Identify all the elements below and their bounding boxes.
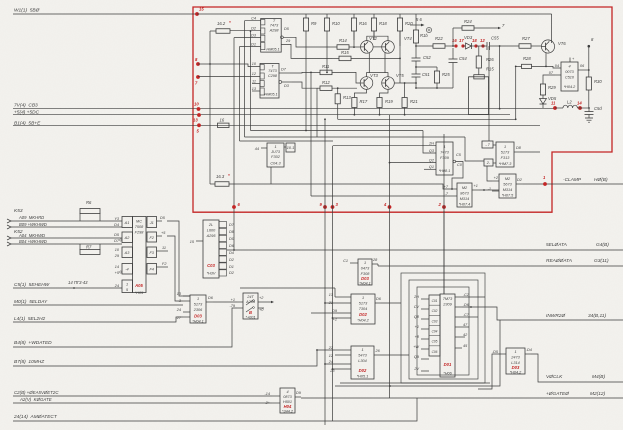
bus mid 1 bbox=[251, 130, 424, 132]
resistor 16.3 bbox=[210, 183, 215, 185]
L314 out bbox=[525, 353, 531, 355]
resistor R18 bbox=[373, 14, 375, 18]
F313 out bbox=[514, 151, 520, 153]
resistor R30 bbox=[586, 77, 591, 90]
node 13 bbox=[197, 113, 201, 117]
U0073 out D6 bbox=[578, 69, 589, 71]
A298 pin C bbox=[234, 37, 261, 39]
collector bracket upper bbox=[367, 36, 388, 40]
power symbol bbox=[426, 27, 431, 32]
IC A295 bbox=[203, 220, 219, 278]
capacitor C52 bbox=[415, 43, 417, 58]
C298 pin 11 bbox=[252, 83, 260, 85]
IC L314 bbox=[506, 348, 525, 374]
F298 out +5 bbox=[157, 235, 163, 237]
wire READDATA bbox=[378, 265, 623, 267]
resistor 16.2 bbox=[210, 30, 216, 32]
A295 right pins bbox=[219, 222, 227, 228]
wire SELDATA bbox=[227, 249, 623, 251]
wire 5B0 input bbox=[13, 13, 197, 15]
resistor R29 bbox=[540, 84, 545, 95]
F309 out bbox=[453, 160, 456, 163]
resistor R1b bbox=[415, 14, 417, 30]
resistor R19 bbox=[377, 98, 382, 108]
pin circles bbox=[120, 239, 122, 241]
wire +DEASVDETZC bbox=[13, 395, 272, 397]
node 2 bbox=[442, 205, 446, 209]
node 7 bbox=[196, 75, 200, 79]
top supply bus bbox=[197, 13, 552, 15]
F298 right box F4 bbox=[147, 264, 157, 275]
input arrow bbox=[7, 219, 11, 223]
bus mid 3 bbox=[240, 140, 334, 142]
capacitor C55 bbox=[486, 42, 488, 50]
VT6 emitter bbox=[545, 52, 547, 66]
resistor R21 bbox=[404, 83, 406, 98]
vertical R28 feed bbox=[515, 66, 517, 119]
wire +DGATED bbox=[301, 397, 623, 399]
node 4 bbox=[388, 205, 392, 209]
node 14 bbox=[578, 106, 582, 110]
riser x390 bbox=[389, 115, 391, 386]
IC A299 bbox=[243, 293, 258, 319]
resistor R13 bbox=[337, 88, 339, 94]
resistor R27 bbox=[519, 44, 531, 49]
2306 out bbox=[206, 301, 213, 303]
F298 out F2 bbox=[157, 266, 169, 268]
wire K53a bbox=[11, 220, 122, 222]
transistor VT5 bbox=[382, 77, 395, 90]
A298 pin D1 bbox=[240, 46, 261, 48]
resistor 16 bbox=[218, 123, 230, 127]
U0073 pin D7 bbox=[555, 74, 561, 76]
wire KDGATE bbox=[13, 402, 272, 404]
node 6 bbox=[232, 205, 236, 209]
F313 input box b bbox=[484, 159, 493, 166]
ground bbox=[585, 117, 593, 119]
wire K52a bbox=[11, 237, 122, 239]
A299 switch marks bbox=[246, 301, 253, 306]
F298 left pin box A2 bbox=[122, 232, 133, 243]
wire CB3 bbox=[13, 108, 555, 110]
wire SELDA2 bbox=[13, 317, 183, 322]
resistor R10 bbox=[326, 14, 328, 18]
wire R23 branch bbox=[416, 66, 437, 68]
F302 pin bbox=[261, 147, 267, 149]
node 10 bbox=[197, 107, 201, 111]
routing loop inner bbox=[417, 287, 469, 375]
wire SENSE bbox=[13, 287, 122, 289]
wire to C55 bbox=[476, 45, 487, 47]
collector bracket lower bbox=[367, 73, 389, 77]
F298 left pin box A4 bbox=[122, 264, 133, 275]
red highlight box outline bbox=[193, 7, 612, 212]
A295 pin 15 bbox=[196, 240, 203, 242]
IC H501 bbox=[280, 388, 295, 413]
A299 pins bbox=[237, 301, 243, 303]
wire INWRZD bbox=[462, 307, 623, 320]
riser x332 bbox=[332, 146, 334, 421]
2309 right stubs bbox=[455, 296, 462, 298]
cascode wire left bbox=[368, 53, 370, 73]
wire join bbox=[416, 87, 453, 89]
vertical feed b bbox=[310, 72, 312, 196]
F298 left pin box A3 bbox=[122, 247, 133, 258]
VT5 base wire bbox=[394, 82, 416, 84]
A299 out bbox=[258, 301, 264, 303]
wire 16.3 out bbox=[229, 184, 450, 189]
R20 lead bbox=[399, 31, 401, 58]
M314a out bbox=[516, 183, 523, 185]
C298 pin 12 bbox=[198, 76, 260, 78]
node 9 bbox=[323, 205, 327, 209]
R16 lead bbox=[353, 31, 355, 47]
2306 pins bbox=[183, 295, 190, 297]
IC L304 bbox=[351, 346, 374, 379]
wire SELDAY bbox=[13, 304, 183, 306]
input arrow bbox=[7, 236, 11, 240]
H501 pins bbox=[272, 395, 280, 397]
node 15 bbox=[195, 12, 199, 16]
IC M314b bbox=[457, 183, 472, 207]
terminal 8 bbox=[588, 45, 591, 48]
7304 out bbox=[375, 302, 381, 304]
F302 out box bbox=[286, 143, 295, 152]
IC 2309 body bbox=[440, 294, 455, 377]
F313 input box a bbox=[482, 141, 493, 148]
F298 out D5 bbox=[157, 220, 163, 222]
resistor R9 bbox=[305, 14, 307, 18]
F298 right box F2 bbox=[147, 232, 157, 242]
resistor R23 bbox=[436, 67, 438, 71]
resistor R16 bbox=[353, 14, 355, 18]
shield box bbox=[469, 77, 489, 115]
C298 pin 13 bbox=[252, 90, 260, 92]
IC 2306 bbox=[190, 295, 206, 323]
wire 16.2-16.3 riser bbox=[209, 31, 211, 184]
input arrow bbox=[7, 242, 11, 246]
resistor R17 bbox=[352, 98, 357, 108]
7304 pins lower bbox=[311, 312, 351, 314]
IC F298 body bbox=[133, 217, 147, 293]
emitter VT3 to R17 bbox=[354, 89, 366, 97]
IC 2309 pin column bbox=[429, 295, 440, 356]
node 8 bbox=[196, 62, 200, 66]
wire 2309 top feed bbox=[443, 211, 445, 294]
A298 pin C4 bbox=[245, 20, 261, 22]
IC U0073 bbox=[569, 58, 571, 63]
resistor R7 bbox=[79, 244, 81, 250]
resistor R11 bbox=[311, 71, 320, 73]
IC 7304 bbox=[351, 294, 375, 324]
IC F309 bbox=[436, 142, 453, 175]
terminal arrow 5 6 bbox=[410, 24, 421, 26]
diode VD3 bbox=[463, 45, 466, 47]
wire M314 lower in bbox=[311, 195, 450, 197]
F308 out bbox=[372, 263, 378, 265]
routing verticals bbox=[233, 38, 235, 250]
node 1 bbox=[543, 182, 547, 186]
node 17 bbox=[461, 44, 464, 47]
riser x444 bbox=[443, 134, 445, 294]
L314 pin D5 bbox=[500, 353, 506, 355]
L304 out bbox=[374, 354, 380, 356]
wire mid bbox=[416, 45, 433, 47]
transistor VT3 bbox=[360, 77, 373, 90]
input arrow bbox=[7, 225, 11, 229]
emitter VT5 to R19 bbox=[380, 89, 389, 97]
resistor R28 bbox=[516, 65, 522, 67]
F302 drop bbox=[270, 167, 272, 184]
F298 right box F1 bbox=[147, 217, 157, 228]
F308 pin C1 bbox=[350, 262, 358, 264]
wire 0073 to R29 bbox=[543, 75, 555, 84]
M314b pins bbox=[450, 188, 457, 190]
wire L2 out bbox=[577, 107, 589, 109]
resistor R20 bbox=[399, 14, 401, 18]
IC M314a bbox=[499, 174, 516, 198]
C298 out wires bbox=[290, 71, 311, 74]
wire 10MHZ bbox=[13, 350, 335, 366]
C298 pin 10 bbox=[198, 64, 260, 67]
7304 pins upper bbox=[335, 296, 351, 298]
H501 out bbox=[295, 396, 301, 398]
IC F302 bbox=[267, 143, 284, 167]
IC D-A298 bbox=[261, 19, 282, 53]
wire VDCLK bbox=[531, 354, 623, 382]
M314a pins bbox=[492, 180, 499, 182]
bus mid 2 bbox=[245, 136, 466, 138]
transistor VT6 bbox=[541, 40, 554, 53]
M314b out bbox=[472, 189, 479, 191]
resistor R15 bbox=[332, 57, 339, 59]
transistor VT2 bbox=[361, 41, 374, 54]
routing bottom bus bbox=[335, 320, 500, 386]
node 3 bbox=[331, 205, 335, 209]
wire K52b bbox=[11, 243, 122, 245]
2309 left stubs bbox=[421, 298, 429, 300]
resistor R26 bbox=[478, 46, 480, 56]
capacitor C51 bbox=[412, 73, 421, 75]
node 5 bbox=[197, 123, 201, 127]
wire 5B+E bbox=[13, 124, 540, 126]
node 18 bbox=[474, 44, 477, 47]
node 12 bbox=[481, 44, 484, 47]
resistor R6 bbox=[79, 213, 81, 221]
wire +WDATED bbox=[13, 308, 237, 347]
base tie VT2-VT4 bbox=[373, 46, 382, 48]
transistor VT4 bbox=[382, 41, 395, 54]
routing loop outer bbox=[401, 273, 485, 383]
IC D-C298 bbox=[260, 64, 279, 99]
capacitor C54 bbox=[452, 46, 454, 59]
inductor L2 bbox=[555, 107, 563, 109]
wire CLAMP bbox=[523, 183, 623, 185]
wire K53b bbox=[11, 226, 122, 228]
F298 out 11 bbox=[157, 250, 169, 252]
resistor R22 bbox=[433, 44, 445, 49]
wire AMDATECT bbox=[13, 398, 417, 421]
resistor R12 bbox=[317, 87, 320, 89]
capacitor C56 bbox=[588, 108, 590, 112]
IC F308 bbox=[358, 259, 372, 285]
vertical feed c bbox=[316, 88, 318, 137]
node 16 bbox=[454, 44, 457, 47]
node 11 bbox=[553, 106, 557, 110]
cascode wire right bbox=[384, 53, 386, 73]
F309 pins bbox=[333, 145, 436, 147]
routing loop mid bbox=[409, 280, 478, 379]
C298 out bbox=[279, 72, 290, 74]
VT6 collector riser bbox=[551, 14, 553, 43]
riser x324 bbox=[324, 119, 326, 425]
F298 left pin box A1 bbox=[122, 217, 133, 228]
A298 out wires bbox=[283, 37, 330, 47]
resistor R14 bbox=[330, 46, 337, 48]
F298 left pin box A5 bbox=[122, 280, 133, 293]
wire F308 feed bbox=[240, 287, 335, 289]
resistor R24 bbox=[452, 28, 454, 46]
F298 right box F3 bbox=[147, 247, 157, 258]
A298 out bbox=[281, 36, 284, 39]
diode VD5 bbox=[542, 95, 544, 99]
IC F313 bbox=[496, 142, 514, 167]
wire +5DC bbox=[13, 114, 510, 116]
L304 pins bbox=[335, 349, 351, 351]
